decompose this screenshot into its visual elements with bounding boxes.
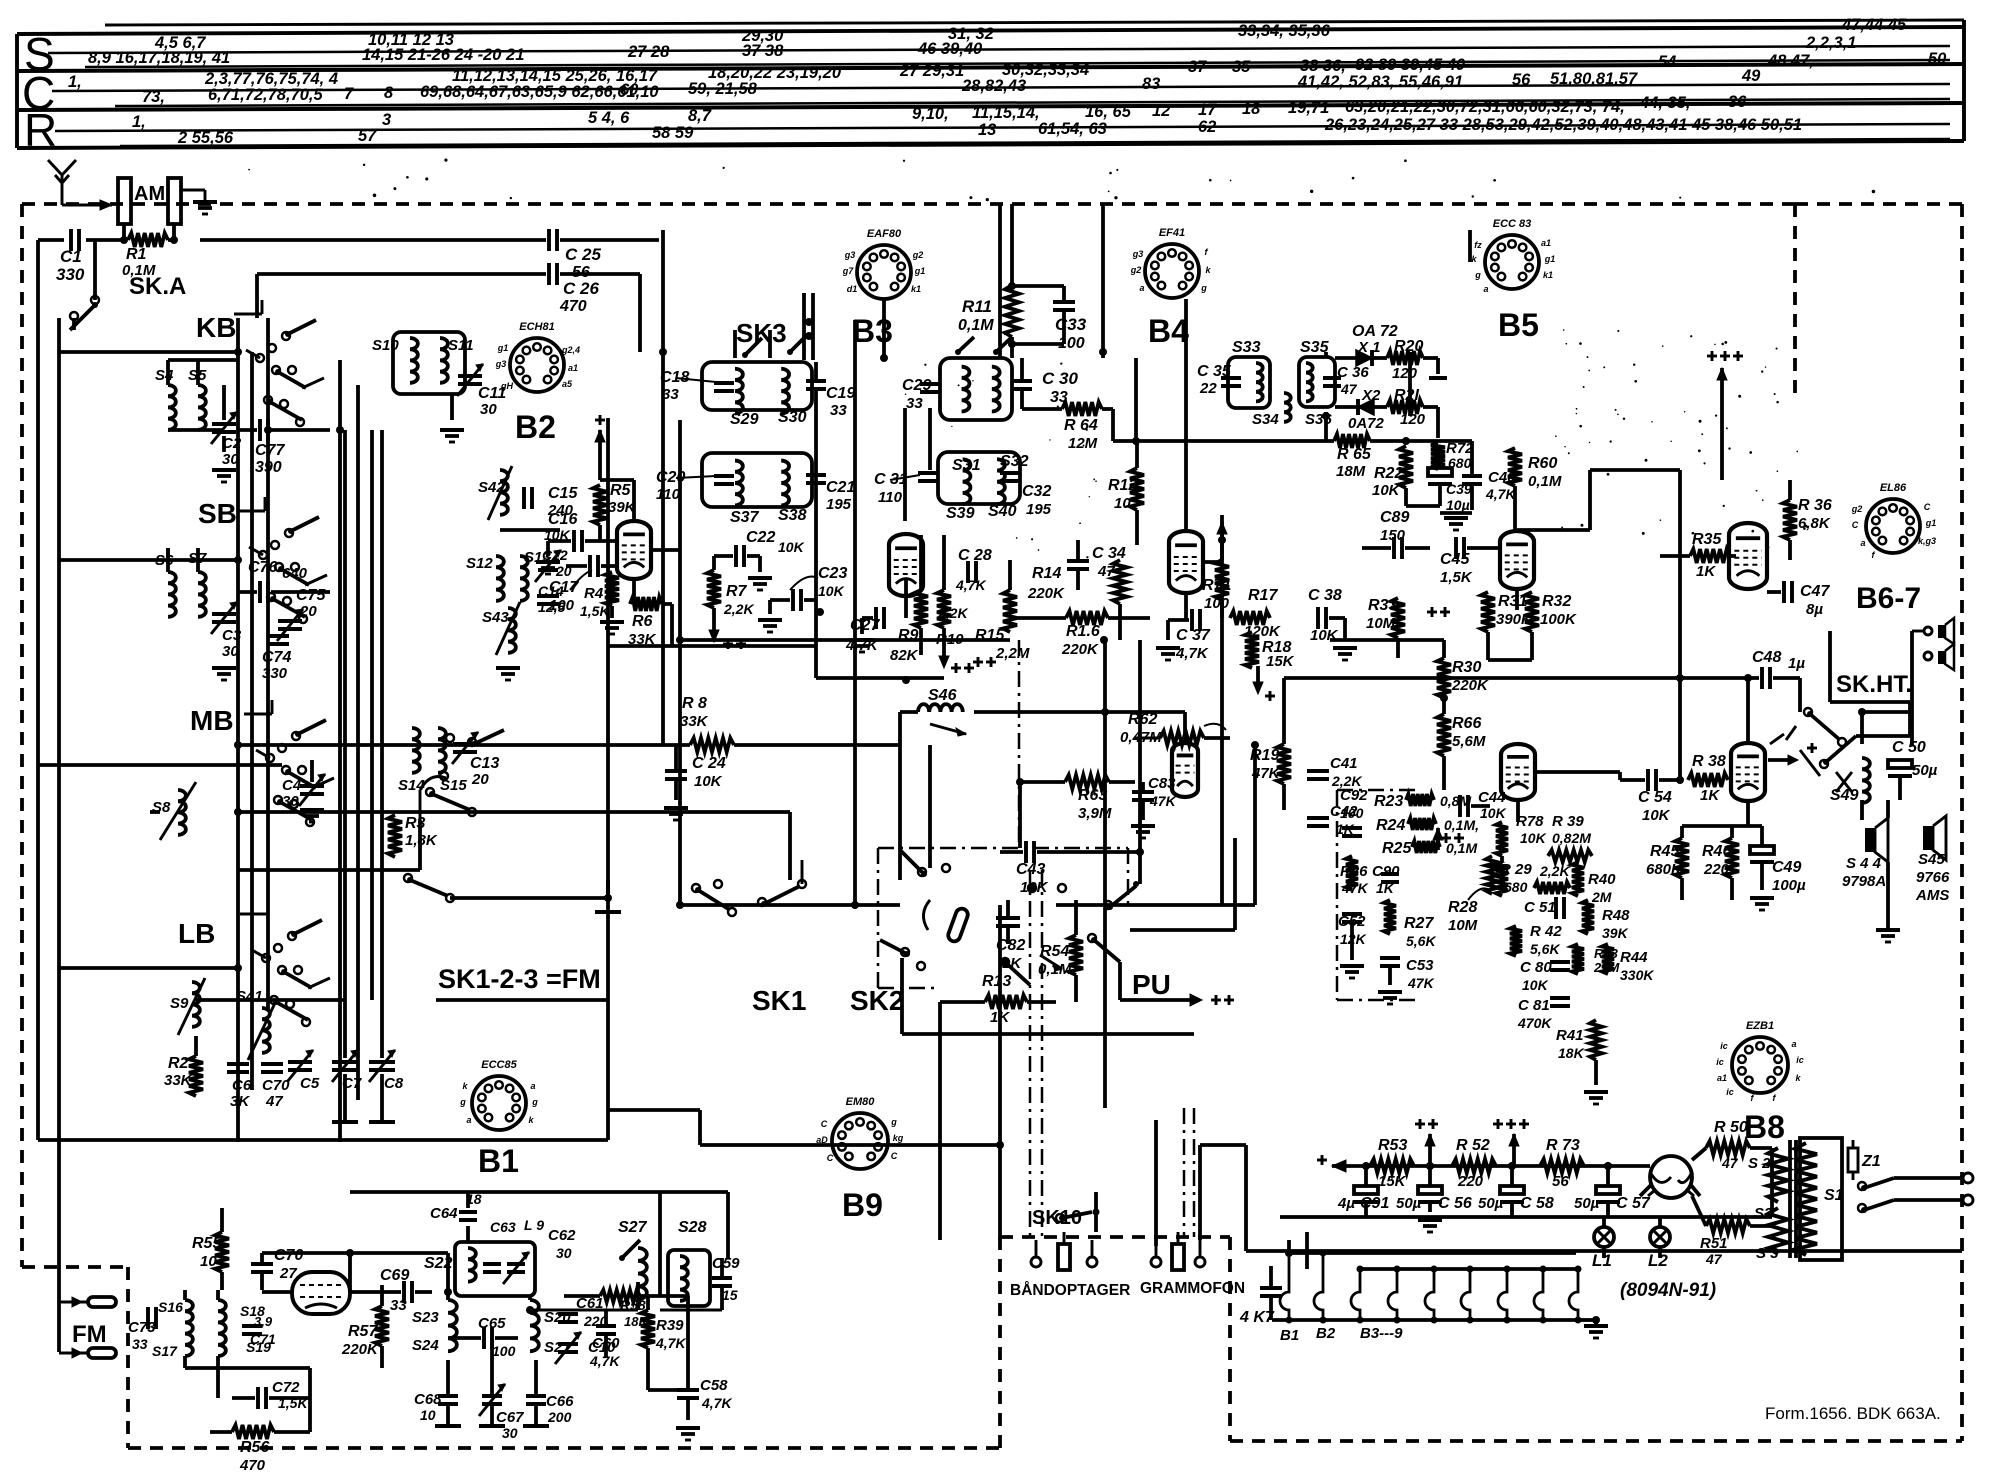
capacitor C22 [714,529,805,590]
svg-text:C5: C5 [300,1075,320,1092]
IF can S37 S38 [702,453,812,526]
row letter C [22,67,55,119]
svg-text:60: 60 [620,81,639,99]
svg-text:26,23,24,25,27 33 28,53,29,42: 26,23,24,25,27 33 28,53,29,42,52,39,40,4… [1324,116,1802,134]
resistor R38 [1688,753,1728,804]
svg-text:C 54: C 54 [1638,789,1672,806]
svg-text:50µ: 50µ [1574,1195,1600,1212]
capacitor C61 [558,1295,608,1329]
label B5 [1498,307,1539,343]
svg-text:R13: R13 [982,973,1011,990]
trimmer C12 [535,547,572,582]
svg-text:ic: ic [1716,1057,1724,1067]
wire B2 area [600,480,680,646]
svg-text:R6: R6 [632,613,653,630]
svg-text:g: g [890,1117,897,1127]
svg-text:1,5K: 1,5K [1440,569,1473,586]
svg-text:10K: 10K [1020,879,1049,896]
capacitor C71 [242,1314,276,1347]
svg-text:37: 37 [1188,58,1207,76]
svg-text:4,7K: 4,7K [701,1395,732,1411]
svg-text:3,9: 3,9 [254,1314,273,1329]
svg-text:C 58: C 58 [1520,1195,1554,1212]
svg-text:C90: C90 [1372,863,1400,880]
svg-text:C 38: C 38 [1308,587,1342,604]
resistor R54 [1038,900,1083,1002]
label SK1 [752,985,806,1016]
resistor R23 [1374,793,1471,810]
svg-text:C 50: C 50 [1892,739,1926,756]
resistor R28 [1448,856,1498,934]
svg-text:S33: S33 [1232,339,1261,356]
svg-text:16, 65: 16, 65 [1085,103,1132,121]
svg-text:ic: ic [1796,1055,1804,1065]
switch arrows above S29 S30 [742,293,813,360]
wire band bus horizontals [38,352,608,1140]
svg-text:R14: R14 [1032,565,1061,582]
svg-text:B9: B9 [842,1187,883,1223]
svg-text:92 89 39,45 40: 92 89 39,45 40 [1355,56,1466,74]
svg-text:33K: 33K [680,713,709,730]
tuning capacitor C7 [332,430,362,1122]
plus2 arrow [1415,1119,1438,1166]
svg-text:100: 100 [549,597,575,614]
svg-text:6,8K: 6,8K [1798,515,1831,532]
resistor R55 [192,1208,229,1290]
svg-text:GRAMMOFON: GRAMMOFON [1140,1280,1245,1297]
lamp L1 [1592,1217,1614,1270]
wire left buses [38,240,95,1352]
svg-text:10K: 10K [1372,482,1401,499]
svg-text:3,9M: 3,9M [1078,805,1112,822]
svg-text:5 4, 6: 5 4, 6 [588,109,630,127]
svg-text:ECC85: ECC85 [481,1059,517,1071]
svg-text:220K: 220K [1061,641,1099,658]
svg-text:g: g [459,1097,466,1107]
svg-text:ECC 83: ECC 83 [1493,218,1532,230]
svg-text:R1.6: R1.6 [1066,623,1100,640]
antenna [48,160,112,210]
svg-text:5,6K: 5,6K [1530,941,1560,957]
svg-text:C66: C66 [546,1393,574,1410]
capacitor C73 [128,1307,156,1352]
svg-text:R 73: R 73 [1546,1137,1580,1154]
svg-text:44, 35,: 44, 35, [1639,94,1690,112]
capacitor C59 [712,1255,740,1310]
svg-text:C: C [821,1119,828,1129]
svg-text:S10: S10 [372,337,399,354]
capacitor C70b [261,1064,290,1110]
svg-text:S45: S45 [1918,851,1945,868]
resistor R21 [1387,387,1438,438]
plus arrow left [1317,1155,1348,1172]
svg-text:a: a [1483,284,1488,294]
trimmer C3 [211,602,242,680]
svg-text:59, 21,58: 59, 21,58 [688,80,758,98]
svg-text:47: 47 [265,1093,283,1110]
capacitor C20 [656,469,734,503]
FM input plug bottom [59,1348,116,1358]
svg-text:9798A: 9798A [1842,873,1886,890]
svg-text:14,15 21-26 24 -20 21: 14,15 21-26 24 -20 21 [362,46,524,64]
svg-text:R39: R39 [656,1317,684,1334]
resistor R46 [1702,838,1739,878]
svg-text:a1: a1 [1717,1073,1727,1083]
svg-text:47: 47 [1721,1155,1739,1171]
capacitor C45 [1440,537,1498,586]
svg-text:39K: 39K [1602,925,1629,941]
svg-text:0,1M: 0,1M [1528,473,1562,490]
svg-text:C23: C23 [818,565,847,582]
label B3 [852,313,893,349]
capacitor C49 [1750,826,1806,910]
svg-text:R71: R71 [1202,577,1231,594]
IF can S39 S40 [938,452,1020,522]
svg-text:C68: C68 [414,1391,442,1408]
svg-text:82K: 82K [890,647,919,664]
svg-text:220: 220 [1703,861,1730,878]
resistor R17 [1230,587,1281,640]
svg-text:d1: d1 [847,284,858,294]
svg-text:C75: C75 [296,587,326,604]
svg-text:41,42, 52,83, 55,46,91: 41,42, 52,83, 55,46,91 [1297,73,1463,91]
svg-text:R27: R27 [1404,915,1434,932]
svg-text:150: 150 [1380,527,1406,544]
resistor R26 [1340,856,1369,896]
resistor R41 [1556,1020,1608,1104]
resistor R42 [1510,923,1562,957]
shield dash-dot box R23 [1337,790,1418,1000]
svg-text:5,6M: 5,6M [1452,733,1486,750]
capacitor C33 [1008,282,1087,352]
svg-text:11,15,14,: 11,15,14, [972,104,1040,122]
svg-text:PU: PU [1132,969,1171,1000]
svg-text:1K: 1K [1002,955,1022,972]
capacitor C44 [1460,789,1507,821]
svg-text:C29: C29 [902,377,931,394]
svg-text:56: 56 [1552,1173,1569,1190]
svg-text:330K: 330K [1620,967,1654,983]
AM input block [118,178,165,224]
svg-text:g: g [1200,283,1207,293]
svg-text:R57: R57 [348,1323,378,1340]
svg-text:C67: C67 [496,1409,524,1426]
wire SK2 risers [900,640,1140,1240]
capacitor C27 [845,607,884,654]
resistor R72 [1431,440,1474,471]
coil S8 [152,782,196,840]
IF can S33 [1228,339,1279,428]
capacitor C30 [1012,358,1078,409]
switch SK10 [1056,1192,1100,1232]
trimmer C2 [211,385,242,482]
svg-text:470: 470 [559,298,587,315]
svg-text:k1: k1 [1543,270,1553,280]
resistor R60 [1508,448,1562,530]
svg-text:S29: S29 [730,411,759,428]
svg-text:g2: g2 [912,250,924,260]
label B6-7 [1856,582,1921,615]
form number [1765,1404,1941,1423]
plus arrow B5b [1433,828,1464,850]
svg-text:C47: C47 [1800,583,1830,600]
fuse Z1 [1848,1140,1881,1180]
tube B4 pentode [1169,531,1203,593]
svg-text:C: C [891,1151,898,1161]
tube socket B9 EM80 [816,1096,904,1169]
mains transformer windings [1768,1138,1844,1260]
speaker S44 [1842,818,1900,942]
svg-text:10M: 10M [1448,917,1478,934]
resistor R31 [1481,592,1533,632]
svg-text:R 39: R 39 [1552,813,1584,830]
resistor R30 [1437,658,1489,698]
svg-text:C62: C62 [548,1227,576,1244]
svg-text:2,2K: 2,2K [1539,863,1570,879]
wire supply buses [1246,1148,1962,1251]
svg-text:30: 30 [480,401,497,418]
resistor 4K7 heater [1239,1266,1282,1326]
resistor R35 [1660,531,1736,580]
svg-text:19,71: 19,71 [1288,99,1329,117]
svg-text:S46: S46 [928,687,957,704]
svg-text:4,7K: 4,7K [655,1335,686,1351]
capacitor C74 [262,636,291,682]
svg-text:10K: 10K [1642,807,1671,824]
svg-text:10: 10 [420,1407,436,1423]
coil S5 [188,360,207,430]
svg-text:EL86: EL86 [1880,482,1907,494]
svg-text:ECH81: ECH81 [519,321,554,333]
label SB [198,498,237,529]
wire SK3 verticals [663,230,816,905]
IF can S31 S32 [940,358,1029,474]
capacitor C60 [589,1310,620,1369]
band switch wafer MB [244,700,334,826]
svg-text:a5: a5 [562,379,573,389]
svg-text:L1: L1 [1592,1251,1612,1270]
svg-text:12M: 12M [1068,435,1098,452]
svg-text:R53: R53 [1378,1137,1407,1154]
capacitor C32 [1000,473,1052,518]
label LB [178,918,215,949]
svg-text:S43: S43 [482,609,509,626]
svg-text:C33: C33 [1055,315,1087,334]
svg-text:R23: R23 [1374,793,1403,810]
capacitor C38 [1308,587,1357,660]
svg-text:3: 3 [382,111,391,129]
capacitor C35 [1197,363,1241,397]
svg-text:KB: KB [196,312,236,343]
resistor R56 [210,1425,310,1474]
label B4 [1148,313,1189,349]
resistor R59 [641,1296,686,1390]
capacitor C48 [1680,649,1805,689]
svg-text:50µ: 50µ [1396,1195,1422,1212]
svg-text:S39: S39 [946,505,975,522]
svg-text:g3: g3 [1132,249,1144,259]
resistor R10 [936,590,974,673]
svg-text:4,7K: 4,7K [1485,486,1516,502]
resistor R11 [955,285,1019,355]
rectifier tube B8 [1648,1156,1694,1198]
svg-text:C73: C73 [128,1319,156,1336]
svg-text:C 24: C 24 [692,755,726,772]
label 8094N-91 [1620,1280,1716,1301]
svg-text:k1: k1 [911,284,921,294]
coil S42 [478,466,512,520]
S row scale lines [48,46,1950,67]
resistor R7 [707,556,754,649]
svg-text:C41: C41 [1330,755,1358,772]
svg-text:C 25: C 25 [565,245,601,264]
label FM [72,1321,107,1348]
svg-text:R1: R1 [126,246,147,263]
svg-text:10K: 10K [818,583,845,599]
svg-text:100: 100 [492,1343,516,1359]
resistor R19 [1250,744,1291,784]
svg-text:C13: C13 [470,755,499,772]
svg-text:ic: ic [1720,1041,1728,1051]
svg-text:S30: S30 [778,409,807,426]
svg-text:0,1M: 0,1M [1446,840,1477,856]
coil S23 S24 [412,1300,457,1354]
svg-text:18M: 18M [1336,463,1366,480]
resistor R73 [1540,1137,1584,1190]
svg-text:2,2,3,1: 2,2,3,1 [1805,34,1856,52]
svg-text:4,7K: 4,7K [1175,645,1209,662]
wire filament bus [1348,1166,1700,1196]
svg-text:ic: ic [1726,1087,1734,1097]
svg-text:Form.1656. BDK 663A.: Form.1656. BDK 663A. [1765,1404,1941,1423]
label SK.HT [1836,671,1912,698]
svg-text:20: 20 [471,771,489,788]
svg-text:C 35: C 35 [1197,363,1232,380]
svg-text:C 81: C 81 [1518,997,1550,1014]
svg-text:S41: S41 [236,988,263,1005]
resistor R63 [1020,775,1135,822]
resistor R6 [628,597,662,648]
coil S7 [188,548,207,617]
capacitor C66 [523,1360,574,1426]
capacitor C39 [1406,468,1472,513]
band switch wafer SB [237,497,327,623]
capacitor C15 [500,485,578,530]
svg-text:33: 33 [906,395,923,412]
capacitor C58b [676,1377,732,1440]
top tuning-table frame [17,20,1964,148]
svg-text:220K: 220K [1027,585,1065,602]
wire heater risers [1289,1232,1307,1269]
capacitor C14 [537,583,565,615]
svg-text:SK.HT.: SK.HT. [1836,671,1912,698]
svg-text:S17: S17 [152,1343,178,1359]
svg-text:fz: fz [1474,240,1482,250]
svg-text:R46: R46 [1702,843,1731,860]
svg-text:220K: 220K [341,1341,379,1358]
svg-text:S24: S24 [412,1337,439,1354]
svg-text:330: 330 [262,665,288,682]
coil S12 [466,555,504,601]
R row scale lines [55,124,1950,146]
resistor R62 [1120,711,1226,746]
svg-text:C1: C1 [60,247,82,266]
resistor R1 [122,233,168,279]
svg-text:50µ: 50µ [1912,762,1938,779]
svg-text:g7: g7 [842,266,854,276]
capacitor C76 [238,559,330,603]
svg-text:57: 57 [358,127,377,145]
svg-text:1,: 1, [132,113,146,131]
svg-text:B1: B1 [478,1143,519,1179]
svg-text:R11: R11 [962,297,992,316]
earth input block [168,178,217,224]
resistor R24 [1376,817,1479,834]
svg-text:a1: a1 [1541,238,1551,248]
svg-text:a: a [530,1081,535,1091]
resistor R3 [388,815,438,857]
tube B3 pentode [889,534,923,596]
svg-text:C15: C15 [548,485,578,502]
svg-text:MB: MB [190,705,234,736]
coil S4 [155,360,176,430]
svg-text:100µ: 100µ [1772,877,1806,894]
svg-text:C53: C53 [1406,957,1434,974]
svg-text:22: 22 [1199,380,1217,397]
svg-text:S38: S38 [778,507,807,524]
svg-text:110: 110 [878,489,903,506]
svg-text:62: 62 [1198,118,1216,136]
svg-text:C89: C89 [1380,509,1409,526]
capacitor C37 [1156,609,1211,662]
coil S28 box [668,1219,710,1306]
svg-text:56: 56 [1512,71,1531,89]
svg-text:47K: 47K [1407,975,1435,991]
svg-text:33: 33 [132,1336,148,1352]
label SK1-2-3=FM [436,964,608,1000]
svg-text:C92: C92 [1340,787,1368,804]
capacitor C51 [1524,897,1564,919]
capacitor C36 [1323,364,1369,397]
capacitor C18 [660,369,734,403]
wire B9 area [1105,678,1680,810]
svg-text:g: g [1474,270,1481,280]
svg-text:AMS: AMS [1915,887,1949,904]
svg-text:0,82M: 0,82M [1552,830,1591,846]
svg-text:EM80: EM80 [846,1096,876,1108]
svg-text:EZB1: EZB1 [1746,1020,1774,1032]
IF can S29 S30 [702,362,812,428]
svg-text:C 56: C 56 [1438,1195,1472,1212]
svg-text:110: 110 [656,486,681,503]
capacitor C92 [1340,787,1368,836]
switch PU contacts [1088,881,1234,1006]
svg-text:R 38: R 38 [1692,753,1726,770]
svg-text:33K: 33K [164,1072,193,1089]
svg-text:48 47,: 48 47, [1767,52,1814,70]
svg-text:S 4 4: S 4 4 [1846,855,1882,872]
svg-text:k,g3: k,g3 [1918,536,1936,546]
wire switch-column verticals [238,318,372,1142]
label B9 [842,1187,883,1223]
resistor R22 [1372,446,1413,506]
svg-text:120: 120 [1392,365,1418,382]
svg-text:6,71,72,78,70,5: 6,71,72,78,70,5 [208,86,324,104]
tube socket B6-7 EL86 [1851,482,1937,560]
svg-text:C 37: C 37 [1176,627,1211,644]
capacitor C42 [1307,803,1358,837]
resistor R65 [1334,434,1472,480]
